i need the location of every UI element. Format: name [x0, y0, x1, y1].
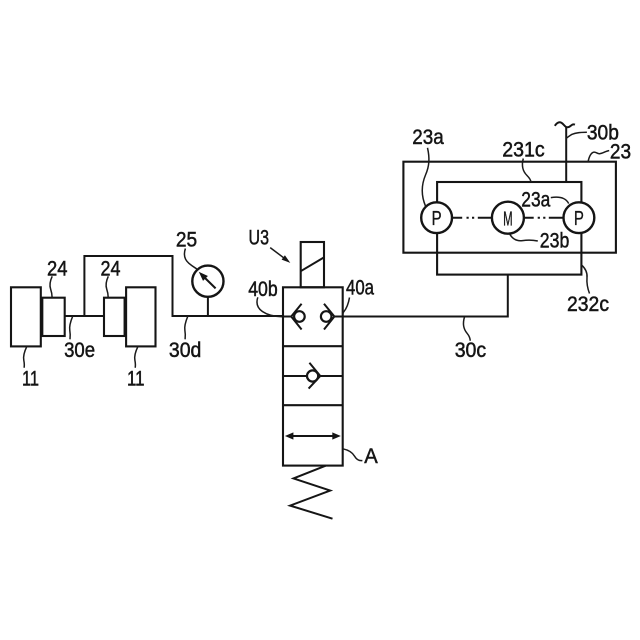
shuttle arrow line [289, 435, 338, 437]
svg-text:23a: 23a [412, 125, 444, 149]
leader 11 right [135, 347, 138, 368]
check valve right seat [324, 304, 334, 330]
leader 25 [184, 249, 197, 270]
leader 23b [510, 234, 538, 241]
svg-text:30d: 30d [169, 338, 202, 362]
wire 30d [172, 315, 284, 317]
svg-text:231c: 231c [502, 138, 545, 162]
svg-text:P: P [574, 207, 584, 230]
leader 231c [522, 159, 530, 183]
leader 30c [463, 317, 470, 341]
shaft dash-dot right [524, 217, 564, 219]
pump P right [564, 202, 595, 233]
svg-text:24: 24 [47, 257, 68, 281]
valve section line 1 [283, 345, 343, 347]
svg-text:23a: 23a [521, 188, 550, 212]
svg-text:40a: 40a [346, 276, 374, 300]
leader 11 left [24, 347, 27, 368]
wire bridge over unit 2 [84, 256, 172, 316]
svg-text:U3: U3 [249, 226, 270, 250]
valve body A [283, 287, 343, 465]
accumulator 11 right [126, 287, 155, 346]
check valve left ball [294, 311, 305, 322]
shaft dash-dot left [452, 217, 492, 219]
U3 arrowhead [282, 255, 291, 263]
leader 40b [257, 297, 282, 316]
svg-text:M: M [503, 207, 513, 230]
svg-text:232c: 232c [567, 292, 609, 316]
valve unit 24 right [104, 298, 125, 336]
leader 23a right [551, 197, 569, 203]
check valve left port 40b stub [283, 316, 291, 318]
gauge needle [204, 277, 216, 288]
gauge needle arrowhead [200, 273, 207, 280]
leader 24 right [106, 276, 108, 297]
pump P left [421, 202, 452, 233]
svg-text:A: A [364, 444, 378, 468]
accumulator 11 left [11, 287, 41, 346]
check valve right ball [321, 311, 332, 322]
svg-text:11: 11 [22, 367, 39, 391]
shuttle arrowhead left [285, 432, 294, 439]
leader 40a [343, 298, 350, 316]
solenoid diagonal [301, 257, 324, 271]
leader A [343, 449, 363, 461]
pressure gauge 25 [192, 266, 223, 297]
leader 24 left [50, 276, 52, 297]
svg-text:40b: 40b [248, 277, 278, 301]
leader 23a top-left [422, 148, 429, 207]
wire 30c horizontal [343, 316, 508, 318]
leader 23 tilde [588, 151, 609, 162]
check valve right port 40a stub [334, 316, 342, 318]
leader 232c [581, 265, 589, 294]
inner box 231c [437, 182, 581, 275]
svg-text:24: 24 [101, 257, 121, 281]
check valve middle right line [320, 375, 342, 377]
leader 30e [70, 316, 73, 339]
spring [290, 466, 332, 519]
svg-text:30e: 30e [64, 338, 95, 362]
motor unit outer box 23 [403, 162, 616, 253]
leader 30d [185, 316, 188, 339]
svg-text:P: P [432, 207, 442, 230]
wire 30b [565, 127, 567, 183]
check valve middle seat [309, 363, 321, 389]
svg-text:23b: 23b [540, 228, 570, 252]
break symbol on wire 30b [555, 122, 575, 127]
wire 30e [65, 315, 104, 317]
svg-text:25: 25 [176, 228, 197, 252]
svg-text:30c: 30c [455, 338, 487, 362]
shuttle arrowhead right [332, 432, 341, 439]
gauge stem [207, 297, 209, 316]
leader 30b [566, 132, 587, 138]
check valve left seat [291, 304, 301, 330]
valve section line 2 [283, 404, 343, 406]
svg-text:23: 23 [610, 140, 631, 164]
check valve middle ball [307, 370, 318, 381]
valve unit 24 left [42, 298, 64, 336]
svg-text:11: 11 [127, 367, 145, 391]
motor M [492, 202, 524, 234]
check valve middle left line [283, 375, 307, 377]
U3 arrow [270, 248, 287, 261]
wire 30c vertical [507, 275, 509, 318]
solenoid U3 box [301, 242, 324, 287]
